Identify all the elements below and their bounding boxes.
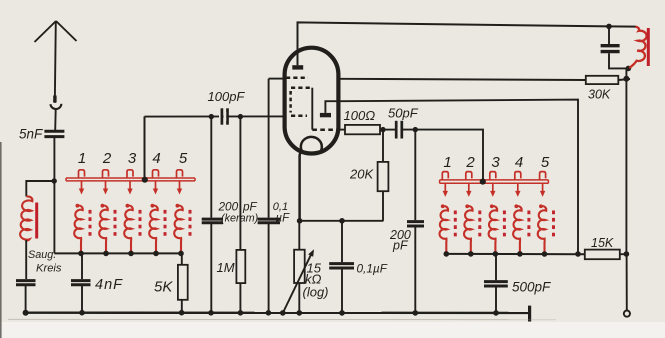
node detector/rail: [575, 251, 581, 257]
node L1 / bank rail: [78, 251, 84, 257]
switch arrow S1b-3: [490, 184, 495, 197]
wire 100pF grid line: [145, 115, 284, 117]
switch arrow S1b-4: [515, 184, 520, 197]
switch arrow S1a-4: [153, 181, 158, 194]
node 20K junction: [380, 127, 385, 132]
potentiometer wiper arrow: [283, 255, 311, 313]
tube diode anode: [320, 113, 331, 117]
wire grid A right exit to 30K: [339, 79, 586, 80]
node L10 / bank rail: [542, 251, 548, 257]
wire 100ohm to 50pF: [380, 129, 396, 131]
svg-text:pF: pF: [242, 200, 258, 214]
node HT junction: [623, 76, 629, 82]
svg-text:15K: 15K: [591, 236, 614, 250]
svg-text:4: 4: [515, 154, 523, 171]
wire left bank bottom rail: [54, 252, 182, 254]
node L9 / bank rail: [517, 251, 523, 257]
capacitor 4nF: [81, 253, 83, 279]
switch contact S1b-3: [490, 172, 496, 180]
wire coil bottom to 30K node: [625, 68, 627, 78]
wire grid A left exit: [269, 78, 285, 80]
node pot / ground rail: [297, 310, 303, 316]
node L7 / bank rail: [468, 251, 474, 257]
svg-text:1: 1: [78, 150, 86, 167]
inductor L3: [124, 204, 140, 254]
svg-text:pF: pF: [392, 239, 409, 253]
scan artifact bottom line: [8, 318, 556, 320]
inductor L6: [440, 204, 456, 254]
inductor L4: [149, 204, 165, 254]
tube grid row A (dashed): [286, 76, 308, 79]
switch contact S1a-2: [103, 170, 109, 178]
svg-text:30K: 30K: [588, 88, 611, 102]
wire anode to top rail: [298, 22, 610, 65]
node 200pF / ground rail: [413, 310, 419, 316]
node cathode/pot: [297, 218, 303, 224]
node wiper / ground rail: [280, 310, 286, 316]
node keram cap / ground rail: [208, 310, 214, 316]
switch arrow S1b-1: [443, 184, 448, 197]
switch arrow S1a-5: [177, 181, 182, 194]
left coil bank switch bar: [66, 178, 195, 181]
switch contact S1a-3: [127, 170, 133, 178]
tube V1 envelope: [285, 48, 339, 154]
capacitor 100pF: [219, 108, 224, 124]
svg-text:5: 5: [179, 150, 188, 167]
wire to trap coil: [26, 181, 54, 197]
capacitor 0,1uF (grid): [268, 79, 270, 218]
scan artifact left edge: [0, 142, 2, 338]
capacitor 5nF: [44, 131, 64, 136]
capacitor 500pF: [495, 254, 497, 280]
switch contact S1a-5: [177, 170, 183, 178]
node L2 / bank rail: [103, 251, 109, 257]
ground rail: [25, 312, 529, 315]
right coil bank switch bar: [440, 180, 549, 183]
switch contact S1b-4: [515, 172, 521, 180]
svg-text:100Ω: 100Ω: [344, 108, 376, 123]
resistor 30K: [586, 76, 619, 84]
svg-text:Kreis: Kreis: [36, 263, 62, 275]
svg-text:1: 1: [443, 154, 451, 171]
svg-text:0,1: 0,1: [273, 201, 288, 213]
inductor top right (anode coil): [629, 27, 646, 68]
capacitor 0,1uF (cathode): [341, 221, 343, 262]
svg-text:3: 3: [491, 154, 500, 171]
node 15K right: [624, 251, 630, 257]
inductor L7: [464, 204, 480, 254]
svg-text:5: 5: [541, 154, 550, 171]
svg-text:5nF: 5nF: [19, 127, 43, 142]
wire antenna down to bank rail: [53, 138, 55, 253]
node 1M junction: [238, 114, 243, 119]
inductor L1: [74, 204, 90, 254]
resistor 5K: [181, 253, 183, 264]
svg-text:3: 3: [128, 150, 137, 167]
node L3 / bank rail: [128, 251, 134, 257]
switch contact S1b-5: [540, 172, 546, 180]
switch contact S1b-1: [442, 172, 448, 180]
potentiometer 15k log: [298, 221, 300, 250]
tube anode: [292, 65, 303, 69]
inductor L8: [489, 204, 505, 254]
svg-text:100pF: 100pF: [208, 89, 246, 104]
inductor L2: [99, 204, 115, 254]
tube grid row D (dashed): [312, 128, 338, 131]
svg-text:20K: 20K: [349, 167, 374, 182]
wire 30K to HT node: [618, 79, 630, 80]
node cathode cap / ground rail: [339, 310, 345, 316]
svg-text:Saug.: Saug.: [28, 249, 56, 261]
wire cathode line: [300, 220, 384, 222]
svg-text:500pF: 500pF: [512, 280, 551, 295]
switch contact S1a-4: [153, 170, 159, 178]
wire HT down right side: [625, 79, 627, 254]
resistor 15K: [585, 250, 620, 260]
antenna: [35, 21, 77, 109]
ground rail end bar: [528, 306, 531, 322]
inductor Saug.Kreis trap coil: [20, 196, 32, 240]
svg-text:200: 200: [218, 200, 239, 214]
wire right bank bottom rail: [446, 253, 585, 255]
switch arrow S1a-2: [103, 181, 108, 194]
svg-text:50pF: 50pF: [388, 106, 419, 121]
wire top rail to coil: [609, 25, 636, 27]
node keram junction: [209, 114, 214, 119]
switch contact S1b-2: [466, 172, 472, 180]
node L5 / bank rail: [178, 251, 184, 257]
wire down to output: [626, 254, 628, 310]
svg-text:(log): (log): [303, 285, 329, 300]
node 1M / ground rail: [238, 310, 244, 316]
inductor L5: [174, 204, 190, 254]
output terminal: [624, 311, 630, 317]
node trap cap / ground rail: [23, 310, 29, 316]
node L4 / bank rail: [153, 251, 159, 257]
node 4nF / ground rail: [79, 310, 85, 316]
capacitor under trap (no label): [25, 240, 27, 279]
svg-text:0,1µF: 0,1µF: [357, 262, 388, 276]
capacitor 50pF: [396, 121, 402, 139]
svg-text:4nF: 4nF: [95, 277, 123, 293]
inductor L10: [538, 204, 554, 254]
node top rail: [606, 24, 612, 30]
svg-text:2: 2: [102, 150, 112, 167]
svg-text:5K: 5K: [154, 279, 173, 296]
node coil bottom: [626, 66, 632, 72]
svg-text:µF: µF: [276, 213, 291, 225]
node antenna/trap junction: [52, 178, 57, 183]
capacitor top right: [608, 26, 610, 44]
switch arrow S1b-5: [540, 184, 545, 197]
capacitor 200pF keram: [210, 117, 212, 218]
tube grid bracket (dashed): [291, 86, 312, 89]
node 5K / ground rail: [179, 310, 185, 316]
node 500pF / ground rail: [493, 310, 499, 316]
wire detector line to right bank: [341, 100, 578, 254]
node on right switch bar: [480, 179, 486, 185]
tube internal link: [311, 88, 313, 130]
node 0,1uF second junction: [339, 218, 345, 224]
antenna lead tip: [53, 100, 56, 103]
svg-text:1M: 1M: [217, 260, 235, 275]
wire diode anode exit: [325, 101, 341, 113]
node L6 / bank rail: [444, 251, 450, 257]
capacitor 200pF: [414, 130, 416, 221]
switch contact S1a-1: [79, 170, 85, 178]
svg-text:2: 2: [465, 154, 475, 171]
switch arrow S1a-3: [127, 181, 132, 194]
node L8 / bank rail: [493, 251, 499, 257]
switch arrow S1b-2: [466, 184, 471, 197]
node grid cap / ground rail: [266, 310, 272, 316]
switch arrow S1a-1: [79, 181, 84, 194]
wire 50pF to right switch bar: [403, 130, 483, 181]
resistor 20K: [382, 130, 384, 162]
node 200pF junction: [413, 127, 418, 132]
wire from 100pF line down to left switch bar: [144, 116, 146, 179]
resistor 1M: [239, 117, 241, 250]
resistor 100 ohm: [340, 129, 345, 131]
node on left switch bar: [142, 177, 148, 183]
svg-text:4: 4: [152, 150, 160, 167]
tube cathode: [300, 137, 322, 221]
inductor L9: [513, 204, 529, 254]
